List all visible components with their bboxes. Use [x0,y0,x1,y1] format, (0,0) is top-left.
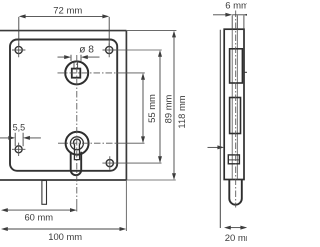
side view follower housing block [230,49,243,83]
screw hole bottom-left [12,143,25,156]
vertical centerline through follower and keyhole [76,55,78,202]
svg-text:72 mm: 72 mm [53,5,82,16]
dimension 89 mm (top holes to bottom-right hole) [158,50,162,163]
side view middle block [230,98,241,134]
keyhole cutout (head circle and slot) [74,139,81,160]
follower ring (circle around square spindle hole) [65,61,88,84]
dimension 72 mm (top hole spacing) [19,14,109,46]
extension line keyhole centerline to 55mm dimension [117,142,145,144]
extension of centerline down to 60mm dimension [76,202,78,212]
keyhole escutcheon outer circle [66,132,89,155]
svg-text:89 mm: 89 mm [162,94,173,123]
svg-text:ø 8: ø 8 [79,45,94,56]
side view small block mid line [228,159,239,161]
side view spindle protruding right [244,71,247,73]
dimension 55 mm (follower axis to keyhole axis) [141,73,145,143]
dimension 5,5 (screw hole diameter) [0,133,41,146]
square spindle hole 8 mm [72,69,81,78]
extension line case top to 118mm dimension [126,30,176,32]
lock case top edge (line A) [0,30,126,32]
screw hole top-left [12,43,25,57]
svg-text:6 mm: 6 mm [225,1,247,12]
side view small block [228,155,239,164]
svg-text:60 mm: 60 mm [24,212,53,223]
cover plate (rounded rectangle) [10,40,117,171]
dimension ø 8 (square hole) [58,55,100,61]
svg-text:118 mm: 118 mm [176,95,187,128]
pointer arrow at keyhole height on side view [208,145,225,149]
svg-text:20 mm: 20 mm [225,233,247,244]
side view case box [224,29,244,179]
extension line case bottom to 118mm dimension [126,179,175,181]
extension line bottom-right screw hole to 89mm dimension [116,162,162,164]
lock case right edge [125,31,127,180]
dimension 118 mm (case height) [172,31,176,180]
dimension 60 mm (keyhole axis from left edge) [1,208,77,212]
extension line top screw holes to 89mm dimension [116,49,162,51]
lock case bottom edge (line B) [0,179,126,181]
slot above square [74,61,78,68]
dimension 100 mm (case width) [1,227,126,231]
screw hole top-right [103,43,116,57]
keyhole pendant (lower tab with U bottom) [71,152,82,175]
horizontal centerline through follower [58,72,118,74]
side view front plate edge line [219,30,221,228]
side view vertical centerline [235,11,237,208]
side view channel lines [232,29,237,179]
svg-text:5,5: 5,5 [13,123,26,133]
dimension 6 mm (top of side view) [213,13,251,17]
dimension 20 mm (side view depth) [224,226,247,230]
extension line follower centerline to 55mm dimension [117,72,145,74]
extension line case corner down to 100mm dimension [125,180,127,231]
screw hole bottom-right [102,156,115,170]
horizontal centerline through keyhole [58,142,117,144]
bolt pin below case [42,181,47,205]
side view bottom tongue (U shape) [229,180,242,205]
keyhole inner circle [70,137,83,150]
svg-text:55 mm: 55 mm [146,94,157,123]
side view spindle stub above case [232,15,244,29]
svg-text:100 mm: 100 mm [48,231,82,242]
